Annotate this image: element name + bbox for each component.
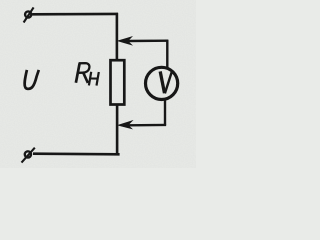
label RH: [76, 63, 99, 86]
voltmeter V: [146, 67, 178, 99]
wire voltmeter top branch: [128, 40, 168, 69]
wire main vertical lower: [116, 104, 119, 154]
wire voltmeter bottom branch: [128, 99, 166, 125]
arrowhead bottom (points left at main wire): [117, 120, 134, 129]
resistor RH body: [111, 60, 125, 104]
wire top horizontal: [32, 13, 118, 16]
wire bottom horizontal: [33, 152, 120, 155]
terminal top-left: [24, 7, 34, 22]
wire main vertical upper: [116, 13, 119, 61]
label U: [25, 70, 39, 89]
terminal bottom-left: [22, 148, 35, 163]
arrowhead top (points left at main wire): [117, 36, 133, 46]
